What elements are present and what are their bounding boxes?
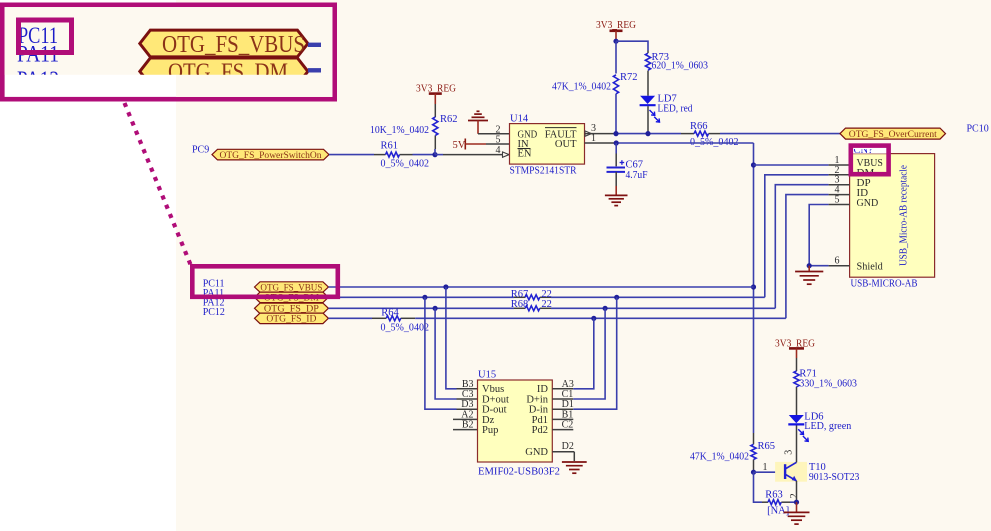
resistor R65 (690, 441, 775, 463)
wire R66 to OverCurrent flag (720, 133, 840, 135)
wire U15 GND pin D2 (552, 452, 574, 461)
resistor R67 (511, 289, 552, 300)
wire ID row (flag to R64) (328, 317, 372, 319)
svg-text:PC12: PC12 (203, 307, 225, 318)
svg-text:U15: U15 (478, 370, 496, 381)
svg-text:1: 1 (591, 133, 596, 144)
wire LD7 cathode to FAULT row (647, 106, 649, 133)
junction FAULT/LD7 (645, 131, 650, 136)
wire base to R63 (754, 472, 763, 502)
svg-text:R64: R64 (381, 308, 399, 319)
LED LD6 (788, 412, 852, 442)
svg-text:LED, green: LED, green (804, 421, 852, 432)
ground (U14 GND pin) (468, 111, 488, 134)
resistor R71 pins (796, 358, 798, 415)
resistor R64 (381, 308, 430, 334)
junction T10 emitter/R63 (794, 500, 799, 505)
pin B1 stub (552, 418, 573, 420)
node PC11 label (203, 279, 225, 290)
svg-text:R72: R72 (620, 72, 638, 83)
node PC10 label (967, 124, 989, 135)
svg-text:PC10: PC10 (967, 124, 989, 135)
junction shield/gnd (807, 263, 812, 268)
ground (C67) (605, 195, 628, 205)
svg-text:R65: R65 (758, 441, 776, 452)
wire R62 to junction (434, 149, 436, 155)
junction DP/C3 (433, 306, 438, 311)
power port 3V3_REG (LD6 branch) (775, 339, 815, 359)
resistor R68 (511, 299, 552, 311)
svg-text:OTG_FS_ID: OTG_FS_ID (266, 314, 316, 325)
designator CN? (masked) (850, 144, 889, 157)
filter U15 EMIF02-USB03F2 body (478, 370, 561, 478)
resistor R73 pins (647, 51, 649, 96)
resistor R66 pins (681, 133, 720, 135)
svg-text:3V3_REG: 3V3_REG (596, 20, 636, 31)
resistor R63 (765, 490, 789, 517)
wire C67 bottom to ground (615, 172, 617, 195)
callout node PC11 label (magnified) (18, 23, 58, 48)
svg-text:U14: U14 (510, 114, 529, 125)
wire T10 collector (796, 441, 798, 462)
wire 3V3 junction to R73 branch corner (616, 41, 648, 50)
junction OUT/C67 (614, 140, 619, 145)
wire VBUS to U15 B3 (446, 287, 478, 389)
junction FAULT/R72 (613, 131, 618, 136)
wire ID row (R64 to USB) (415, 317, 786, 319)
port OTG_FS_DM (255, 292, 329, 304)
wire R63 to emitter node (790, 501, 797, 503)
callout magnified sheet crop (5, 7, 333, 75)
svg-text:B2: B2 (462, 420, 474, 431)
pin designators U15 right (562, 379, 574, 452)
svg-text:Shield: Shield (857, 261, 884, 273)
junction T10 base (751, 470, 756, 475)
svg-text:PC9: PC9 (192, 145, 209, 156)
junction DM/D1 (614, 295, 619, 300)
resistor R68 pins (514, 307, 551, 309)
wire base junction to T10 (754, 462, 786, 473)
wire USB pin 6 Shield (809, 256, 849, 267)
callout node PA12 sliver (magnified) (17, 67, 59, 92)
junction DP/C1 (603, 306, 608, 311)
svg-text:47K_1%_0402: 47K_1%_0402 (552, 82, 611, 93)
pin A2 stub (453, 418, 478, 420)
transistor T10 9013-SOT23 (775, 450, 859, 499)
callout node PA11 label (magnified) (17, 42, 59, 67)
highlight rect over PC11/PA11 flags (192, 266, 337, 297)
dotted leader line (125, 103, 191, 265)
junction VBUS/B3 (443, 284, 448, 289)
svg-text:0_5%_0402: 0_5%_0402 (381, 323, 430, 334)
pin 4 EN input arrow (496, 145, 510, 157)
svg-text:USB-MICRO-AB: USB-MICRO-AB (851, 279, 918, 290)
port OTG_FS_PowerSwitchOn (212, 149, 329, 161)
node PA12 label (203, 298, 225, 309)
wire U14 OUT pin 1 (585, 133, 617, 144)
wire R72 branch down (615, 41, 617, 73)
wire T10 emitter down (796, 481, 798, 502)
power port 5V (453, 139, 487, 152)
node PC12 label (203, 307, 225, 318)
junction ID/A3 (591, 316, 596, 321)
svg-text:EMIF02-USB03F2: EMIF02-USB03F2 (478, 467, 560, 478)
ground (T10 emitter) (784, 502, 810, 524)
svg-text:R66: R66 (690, 121, 708, 132)
junction node EN/R62 (432, 152, 437, 157)
wire USB pin 1 VBUS (754, 155, 850, 166)
resistor R62 (370, 114, 458, 136)
svg-text:5V: 5V (453, 140, 466, 151)
wire C67 top (615, 143, 617, 166)
resistor R63 pins (762, 501, 790, 503)
svg-text:GND: GND (857, 197, 879, 209)
svg-text:R63: R63 (765, 490, 783, 501)
resistor R61 pins (374, 154, 413, 156)
svg-text:4: 4 (496, 145, 501, 156)
svg-text:6: 6 (835, 256, 840, 267)
svg-text:620_1%_0603: 620_1%_0603 (652, 60, 709, 71)
wire DM row (flag to R67) (328, 296, 514, 298)
svg-text:330_1%_0603: 330_1%_0603 (799, 378, 857, 389)
highlight rect over USB VBUS/DM pins (851, 146, 889, 175)
svg-text:OUT: OUT (555, 139, 577, 150)
wire USB pin 4 ID (786, 185, 850, 319)
callout highlight rect over PC11 (19, 20, 72, 53)
callout magnifier box (2, 5, 334, 99)
LED LD7 (640, 94, 694, 123)
junction 3V3 branch (613, 39, 618, 44)
resistor R66 (690, 121, 739, 148)
capacitor C67 (607, 160, 648, 182)
callout port OTG_FS_DM (magnified, clipped) (140, 58, 308, 86)
svg-text:0_5%_0402: 0_5%_0402 (381, 159, 430, 170)
junction VBUS/USB pin1 (751, 162, 756, 167)
callout wire stub DM (308, 68, 321, 72)
svg-text:10K_1%_0402: 10K_1%_0402 (370, 125, 429, 136)
wire U14 IN pin 5 (486, 135, 510, 146)
pin B2 stub (453, 429, 478, 431)
callout port OTG_FS_VBUS (magnified) (140, 30, 308, 58)
connector CN? USB-MICRO-AB body (850, 154, 935, 290)
wire U14 FAULT pin 3 (585, 133, 617, 135)
svg-text:C67: C67 (626, 160, 644, 171)
pin 3 FAULT output arrow (585, 123, 596, 136)
svg-text:OTG_FS_VBUS: OTG_FS_VBUS (162, 31, 305, 58)
wire U15 D1 to DM row (552, 297, 616, 409)
op-amp U14 STMPS2141STR body (510, 114, 585, 177)
wire DM to U15 D3 (425, 297, 478, 409)
pin C2 stub (552, 429, 573, 431)
resistor R71 (794, 369, 857, 390)
svg-text:4.7uF: 4.7uF (626, 170, 648, 181)
port OTG_FS_OverCurrent (840, 128, 946, 140)
svg-text:OTG_FS_OverCurrent: OTG_FS_OverCurrent (849, 129, 937, 140)
svg-text:R68: R68 (511, 299, 529, 310)
wire R72 to FAULT row (615, 94, 617, 134)
wire VBUS chain vertical (753, 143, 755, 433)
ground (USB shield) (795, 266, 823, 285)
ground (U15) (562, 462, 587, 473)
resistor R61 (381, 141, 430, 170)
svg-text:5: 5 (835, 195, 840, 206)
svg-text:EN: EN (518, 148, 532, 159)
junction VBUS row (751, 284, 756, 289)
svg-text:R61: R61 (381, 141, 399, 152)
wire DP row (flag to R68) (328, 307, 514, 309)
port OTG_FS_DP (255, 303, 329, 315)
wire U15 C1 to DP row (552, 308, 605, 399)
wire OUT row to VBUS corner (616, 142, 754, 144)
wire DM row (R67 to USB) (551, 296, 765, 298)
node PC9 label (192, 145, 209, 156)
svg-text:9013-SOT23: 9013-SOT23 (809, 472, 860, 483)
wire R61 to EN junction (413, 154, 436, 156)
wire EN junction to U14 EN pin (435, 154, 510, 156)
svg-text:Pup: Pup (482, 425, 498, 436)
port OTG_FS_VBUS (255, 282, 329, 294)
svg-text:OTG_FS_PowerSwitchOn: OTG_FS_PowerSwitchOn (220, 150, 322, 161)
wire VBUS row (328, 286, 753, 288)
svg-text:47K_1%_0402: 47K_1%_0402 (690, 452, 749, 463)
resistor R62 pins (434, 104, 436, 149)
wire USB pin 3 DP (775, 175, 849, 309)
svg-text:[NA]: [NA] (767, 506, 789, 517)
pin designators U15 left (461, 379, 473, 431)
svg-text:LED, red: LED, red (658, 103, 694, 114)
svg-text:2: 2 (789, 493, 800, 498)
svg-text:1: 1 (763, 462, 768, 473)
svg-text:D2: D2 (562, 441, 574, 452)
port OTG_FS_ID (255, 313, 329, 325)
wire FAULT row junctions (616, 133, 681, 135)
wire U15 A3 to ID row (552, 318, 594, 389)
svg-text:5: 5 (496, 135, 501, 146)
resistor R73 (645, 52, 708, 71)
svg-text:R62: R62 (440, 114, 458, 125)
svg-text:USB_Micro-AB receptacle: USB_Micro-AB receptacle (898, 165, 910, 266)
svg-text:STMPS2141STR: STMPS2141STR (510, 166, 577, 177)
resistor R72 (552, 72, 638, 94)
wire LD6 cathode to collector (796, 426, 798, 442)
resistor R65 pins (753, 433, 755, 472)
resistor R67 pins (514, 296, 551, 298)
svg-text:GND: GND (525, 447, 548, 458)
junction DM/D3 (422, 295, 427, 300)
svg-text:3: 3 (784, 450, 795, 455)
resistor R64 pins (372, 317, 415, 319)
svg-text:22: 22 (541, 299, 552, 310)
wire DP row (R68 to USB) (551, 307, 775, 309)
power port 3V3_REG (U14 enable pull-up) (416, 84, 456, 105)
power port 3V3_REG (LD7 branch) (596, 20, 636, 41)
wire DP to U15 C3 (435, 308, 477, 399)
wire PC9 row: flag to R61 (329, 154, 374, 156)
callout wire stub VBUS (308, 43, 321, 47)
node PA11 label (203, 288, 225, 299)
wire USB pin 5 GND (809, 195, 849, 266)
svg-text:Pd2: Pd2 (532, 425, 548, 436)
wire USB pin 2 DM (765, 165, 850, 297)
wire U14 GND pin 2 (478, 124, 510, 135)
